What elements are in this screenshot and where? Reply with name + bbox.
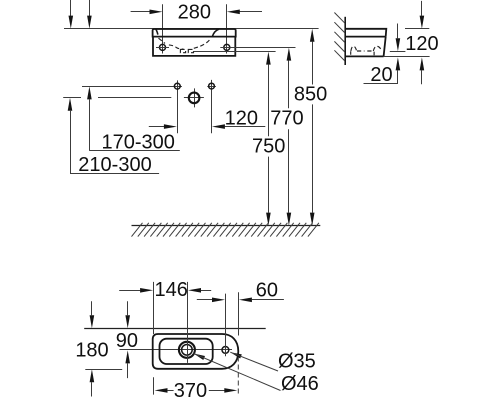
- dimension 280 right arrow: [239, 11, 262, 13]
- wall line: [344, 17, 346, 65]
- left dimension line upper stub A: [70, 0, 72, 16]
- dimension 170-300 arrow and leader: [87, 86, 92, 99]
- plan view bowl outline: [160, 339, 213, 364]
- dimension 20 upper arrow: [397, 24, 399, 39]
- side bottom reference line: [384, 56, 430, 58]
- dimension 20 lower arrow: [396, 57, 401, 70]
- floor hatching: [132, 223, 319, 237]
- dimension 90 lower arrow: [125, 350, 130, 363]
- dimension 180 lower arrow: [90, 369, 95, 382]
- svg-text:850: 850: [294, 84, 327, 106]
- dimension 750 line: [266, 52, 271, 65]
- svg-text:120: 120: [225, 107, 258, 129]
- waste outlet circle: [189, 93, 200, 104]
- leader line diameter 46: [194, 354, 205, 361]
- floor line: [132, 225, 321, 227]
- svg-text:210-300: 210-300: [78, 154, 151, 176]
- dimension 146 right arrow: [188, 288, 201, 293]
- basin interior dashed contour left: [159, 38, 184, 49]
- basin interior overflow box 1: [180, 49, 185, 52]
- left dimension line upper stub B: [89, 0, 91, 16]
- right edge extension dashed part: [237, 357, 239, 395]
- basin front view rim inner edge right: [212, 29, 218, 36]
- waste outlet crosshair: [184, 97, 204, 99]
- dimension 370 right arrow: [209, 390, 225, 392]
- tap hole vertical centre line / 60 extension: [225, 294, 227, 357]
- side view interior trap dome 1: [351, 46, 357, 55]
- basin front view rim: [153, 29, 236, 37]
- basin front view rim inner edge left: [156, 29, 158, 34]
- drain connection height line left tick: [63, 97, 81, 99]
- svg-text:146: 146: [155, 279, 188, 301]
- dimension 370 left extension line: [153, 377, 155, 394]
- drain hole inner circle: [182, 345, 193, 356]
- supply hole right: [209, 83, 215, 89]
- side view interior trap dome 2: [373, 46, 382, 55]
- svg-text:20: 20: [370, 64, 392, 86]
- dimension 146 left arrow: [119, 290, 140, 292]
- dimension 210-300 arrow and leader: [68, 98, 73, 111]
- svg-text:370: 370: [174, 380, 207, 400]
- svg-text:170-300: 170-300: [101, 132, 174, 154]
- svg-text:770: 770: [270, 107, 303, 129]
- dimension 60 right arrow: [239, 298, 252, 303]
- dimension 180 upper arrow: [91, 301, 93, 315]
- side view body: [345, 37, 386, 57]
- dimension 280 left extension line: [162, 4, 164, 53]
- drain height line (750 level): [193, 51, 275, 53]
- side view rim: [345, 29, 386, 37]
- svg-text:60: 60: [256, 279, 278, 301]
- dimension 120 right arrow: [225, 126, 266, 128]
- dimension 850 line: [310, 29, 315, 42]
- side view interior dashed floor: [357, 50, 372, 52]
- drain centre line plan: [120, 349, 233, 351]
- side rim extension line: [405, 28, 429, 30]
- dimension 60 left arrow: [197, 299, 212, 301]
- dimension 370 left arrow: [155, 388, 168, 393]
- wall hatching: [334, 13, 345, 62]
- dimension 90 upper arrow: [127, 301, 129, 315]
- dimension 120 left arrow: [149, 126, 164, 128]
- drain vertical centre line / 146 extension: [187, 282, 189, 363]
- dimension 120 side lower arrow: [420, 57, 425, 70]
- dimension 120 side upper arrow: [421, 1, 423, 16]
- svg-text:280: 280: [178, 1, 211, 23]
- basin front edge reference line: [85, 369, 122, 371]
- right edge extension solid part: [238, 292, 240, 335]
- supply hole left: [174, 83, 180, 89]
- basin interior dashed contour right: [194, 38, 211, 48]
- dimension 146 left extension line: [153, 282, 155, 334]
- mounting hole height line (770 level): [220, 47, 295, 49]
- plan view outer outline: [153, 334, 239, 369]
- dimension 280 right extension line: [226, 4, 228, 53]
- dimension 280 left arrow: [131, 11, 150, 13]
- basin front view body: [153, 37, 235, 56]
- basin interior overflow box 2: [188, 49, 193, 52]
- svg-text:120: 120: [405, 33, 438, 55]
- svg-text:750: 750: [252, 135, 285, 157]
- side drain stub line: [390, 51, 406, 53]
- supply hole left crosshair: [173, 86, 182, 88]
- drain hole outer circle: [179, 342, 195, 358]
- mounting hole right: [224, 44, 230, 50]
- mounting hole left: [160, 44, 166, 50]
- supply hole right crosshair: [207, 86, 216, 88]
- supply connection height line: [82, 86, 174, 88]
- leader line diameter 35: [230, 352, 242, 358]
- svg-text:180: 180: [75, 340, 108, 362]
- rim height reference line (850 level): [64, 28, 319, 30]
- svg-text:Ø46: Ø46: [281, 373, 319, 395]
- drain connection height line: [98, 97, 171, 99]
- wall line plan view: [84, 328, 266, 330]
- dimension 770 line: [287, 48, 292, 61]
- svg-text:Ø35: Ø35: [278, 350, 316, 372]
- svg-text:90: 90: [116, 330, 138, 352]
- tap hole circle: [222, 347, 229, 354]
